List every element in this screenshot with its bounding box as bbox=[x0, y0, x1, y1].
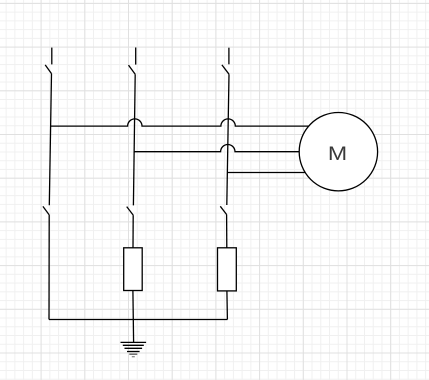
switch S1 bbox=[45, 48, 52, 74]
switch S6 bbox=[220, 206, 226, 214]
switch S3 bbox=[222, 48, 229, 74]
switch S2 bbox=[129, 48, 136, 75]
wire bbox=[132, 291, 135, 343]
wire L3 feeder bbox=[228, 172, 306, 174]
resistor R1 bbox=[124, 248, 143, 291]
wire bbox=[48, 215, 50, 320]
resistor R2 bbox=[218, 248, 237, 291]
switch S5 bbox=[127, 207, 134, 216]
svg-text:M: M bbox=[328, 143, 347, 165]
switch S4 bbox=[43, 206, 49, 215]
wire L1 feeder with hops bbox=[51, 119, 309, 126]
motor M1 bbox=[299, 113, 377, 191]
wire bbox=[132, 215, 134, 248]
wire bbox=[227, 74, 229, 205]
wire ground bus bbox=[49, 319, 227, 321]
wire bbox=[226, 215, 228, 248]
ground bbox=[121, 342, 147, 356]
wire bbox=[49, 74, 51, 206]
wire bbox=[133, 74, 135, 205]
wire L2 feeder with hop bbox=[134, 145, 299, 152]
wire bbox=[226, 291, 229, 320]
